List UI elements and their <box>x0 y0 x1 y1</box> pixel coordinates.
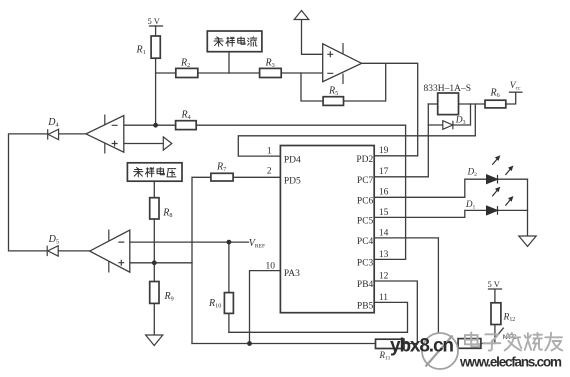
svg-text:1: 1 <box>267 147 272 157</box>
svg-text:5 V: 5 V <box>488 279 501 289</box>
svg-text:2: 2 <box>267 167 272 177</box>
svg-text:16: 16 <box>379 188 389 198</box>
svg-text:11: 11 <box>379 293 388 303</box>
svg-text:PB5: PB5 <box>357 302 374 312</box>
svg-text:PD5: PD5 <box>284 177 301 187</box>
svg-text:PD4: PD4 <box>284 155 301 165</box>
svg-text:ybx8.cn: ybx8.cn <box>390 335 454 356</box>
svg-text:14: 14 <box>379 228 389 238</box>
svg-text:PC5: PC5 <box>357 217 374 227</box>
svg-text:17: 17 <box>379 167 389 177</box>
svg-text:5 V: 5 V <box>148 16 161 26</box>
svg-text:19: 19 <box>379 146 389 156</box>
svg-text:PC7: PC7 <box>357 176 374 186</box>
svg-text:10: 10 <box>266 262 276 272</box>
svg-text:PD2: PD2 <box>356 155 373 165</box>
svg-text:12: 12 <box>379 271 389 281</box>
svg-text:13: 13 <box>379 250 389 260</box>
svg-text:PC3: PC3 <box>357 259 374 269</box>
svg-text:PC4: PC4 <box>357 237 374 247</box>
svg-text:833H–1A–S: 833H–1A–S <box>424 84 472 94</box>
svg-text:PB4: PB4 <box>357 280 374 290</box>
svg-text:PA3: PA3 <box>284 269 300 279</box>
svg-text:www.elecfans.com: www.elecfans.com <box>459 355 562 370</box>
svg-text:PC6: PC6 <box>357 197 374 207</box>
svg-text:15: 15 <box>379 208 389 218</box>
